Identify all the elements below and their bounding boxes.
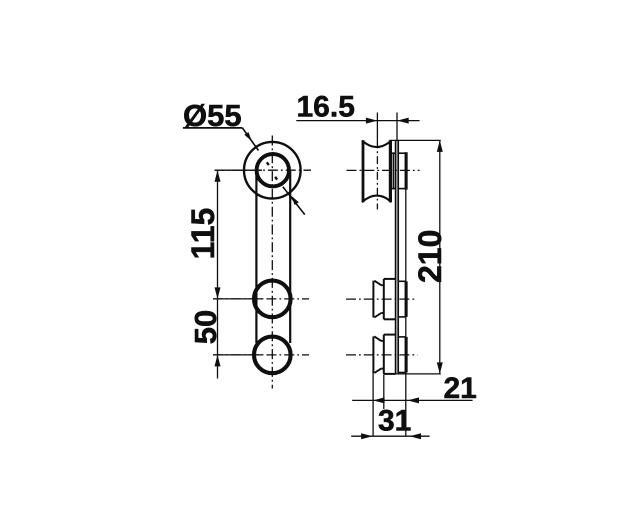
bottom roller cone bottom <box>374 369 381 373</box>
front view bottom roller circle <box>254 337 291 374</box>
middle roller neck top <box>381 284 384 286</box>
extension line 16.5 right to plate <box>396 113 398 141</box>
dimension 31 line <box>351 435 429 437</box>
middle roller rim line <box>372 281 374 318</box>
arrow up at 210 top <box>437 140 443 152</box>
arrow up at y170 <box>215 170 221 182</box>
washer top edge <box>390 152 395 154</box>
arrow right toward x372.6 <box>361 433 373 439</box>
front view top hole horizontal centerline <box>215 169 312 171</box>
long extension line along boss faces down to 31 dim <box>405 189 407 437</box>
middle roller boss right face thick <box>405 281 408 317</box>
arrow down at 210 bottom <box>437 362 443 374</box>
middle roller cone top <box>374 281 381 286</box>
diameter leader dash dot 2 <box>275 177 277 180</box>
bottom roller boss bottom edge <box>398 372 406 374</box>
middle roller cone bottom <box>374 313 381 318</box>
bottom roller body top edge <box>384 334 396 336</box>
middle roller boss top edge <box>398 280 406 282</box>
dimension 21 line <box>352 399 472 401</box>
extension line at middle hole <box>213 298 262 300</box>
dimension 210 top extension <box>389 139 440 141</box>
washer bottom edge <box>390 188 395 190</box>
bottom roller boss right face thick <box>405 337 408 373</box>
Ø55 label underline <box>183 127 243 129</box>
pulley axle boss right face thick <box>405 152 408 189</box>
arrow down at y298.9 <box>215 287 221 299</box>
side view pulley left flange <box>362 140 365 202</box>
extension line at bottom hole <box>213 354 262 356</box>
middle roller body left edge <box>383 279 385 319</box>
side view plate right face <box>397 140 399 374</box>
extension line at roller body face x383.8 <box>383 374 385 409</box>
bottom roller body left edge <box>383 335 385 374</box>
front view plate right edge <box>289 171 291 343</box>
pulley axle boss bottom edge <box>398 188 406 190</box>
middle roller body bottom edge <box>384 318 396 320</box>
extension line at roller face x373 <box>372 372 374 437</box>
front view bottom hole horizontal centerline <box>213 354 309 356</box>
bottom roller rim line <box>372 336 374 373</box>
middle roller neck bottom <box>381 312 384 314</box>
front view vertical centerline <box>271 136 273 389</box>
pulley axle boss top edge <box>398 152 406 154</box>
arrow right toward x377.4 <box>366 118 378 124</box>
dimension 16.5 line <box>296 120 419 122</box>
front view plate left edge <box>255 171 257 343</box>
bottom roller neck bottom <box>381 368 384 370</box>
diameter leader line lower segment <box>283 187 305 215</box>
arrow left at x373 inside <box>373 397 385 403</box>
extension tick top at 115 upper <box>215 169 263 171</box>
dimension 210 line <box>439 140 441 374</box>
side view pulley groove top arc <box>362 141 391 148</box>
front view big roller hub inner circle <box>257 154 289 186</box>
front view middle roller circle <box>254 281 291 318</box>
svg-text:115: 115 <box>185 208 221 260</box>
side view pulley vertical centerline <box>376 140 378 209</box>
extension line 16.5 left over pulley center <box>376 113 378 141</box>
dimension line 115 and 50 <box>217 170 219 378</box>
bottom roller body bottom edge <box>384 373 396 375</box>
side view pulley horizontal centerline <box>347 169 420 171</box>
side view pulley right flange <box>389 140 392 202</box>
middle roller body top edge <box>384 278 396 280</box>
arrow left toward x397 <box>397 118 409 124</box>
svg-text:21: 21 <box>444 372 477 405</box>
svg-text:50: 50 <box>188 310 223 344</box>
side view plate left face <box>395 140 397 374</box>
middle roller boss bottom edge <box>398 316 406 318</box>
arrow up at y354.9 <box>215 355 221 367</box>
bottom roller boss top edge <box>398 336 406 338</box>
diameter leader arrowhead lower <box>291 196 299 205</box>
bottom roller horizontal centerline <box>346 354 418 356</box>
middle roller horizontal centerline <box>346 298 416 300</box>
svg-text:16.5: 16.5 <box>297 91 355 124</box>
arrow left at right of 31 <box>410 433 422 439</box>
svg-text:31: 31 <box>378 405 411 438</box>
diameter leader arrowhead upper <box>244 132 252 141</box>
side view pulley groove bottom arc <box>362 196 391 203</box>
diameter leader line upper segment <box>242 128 258 151</box>
bottom roller cone top <box>374 336 381 341</box>
front view middle hole horizontal centerline <box>213 298 309 300</box>
washer line behind pulley <box>392 153 394 188</box>
svg-text:210: 210 <box>412 230 448 283</box>
dimension 210 bottom extension <box>384 373 440 375</box>
svg-text:Ø55: Ø55 <box>183 98 242 133</box>
front view big roller outer circle <box>244 142 301 199</box>
arrow left at x407.5 <box>408 397 420 403</box>
diameter leader dash dot 1 <box>267 162 269 165</box>
bottom roller neck top <box>381 340 384 342</box>
